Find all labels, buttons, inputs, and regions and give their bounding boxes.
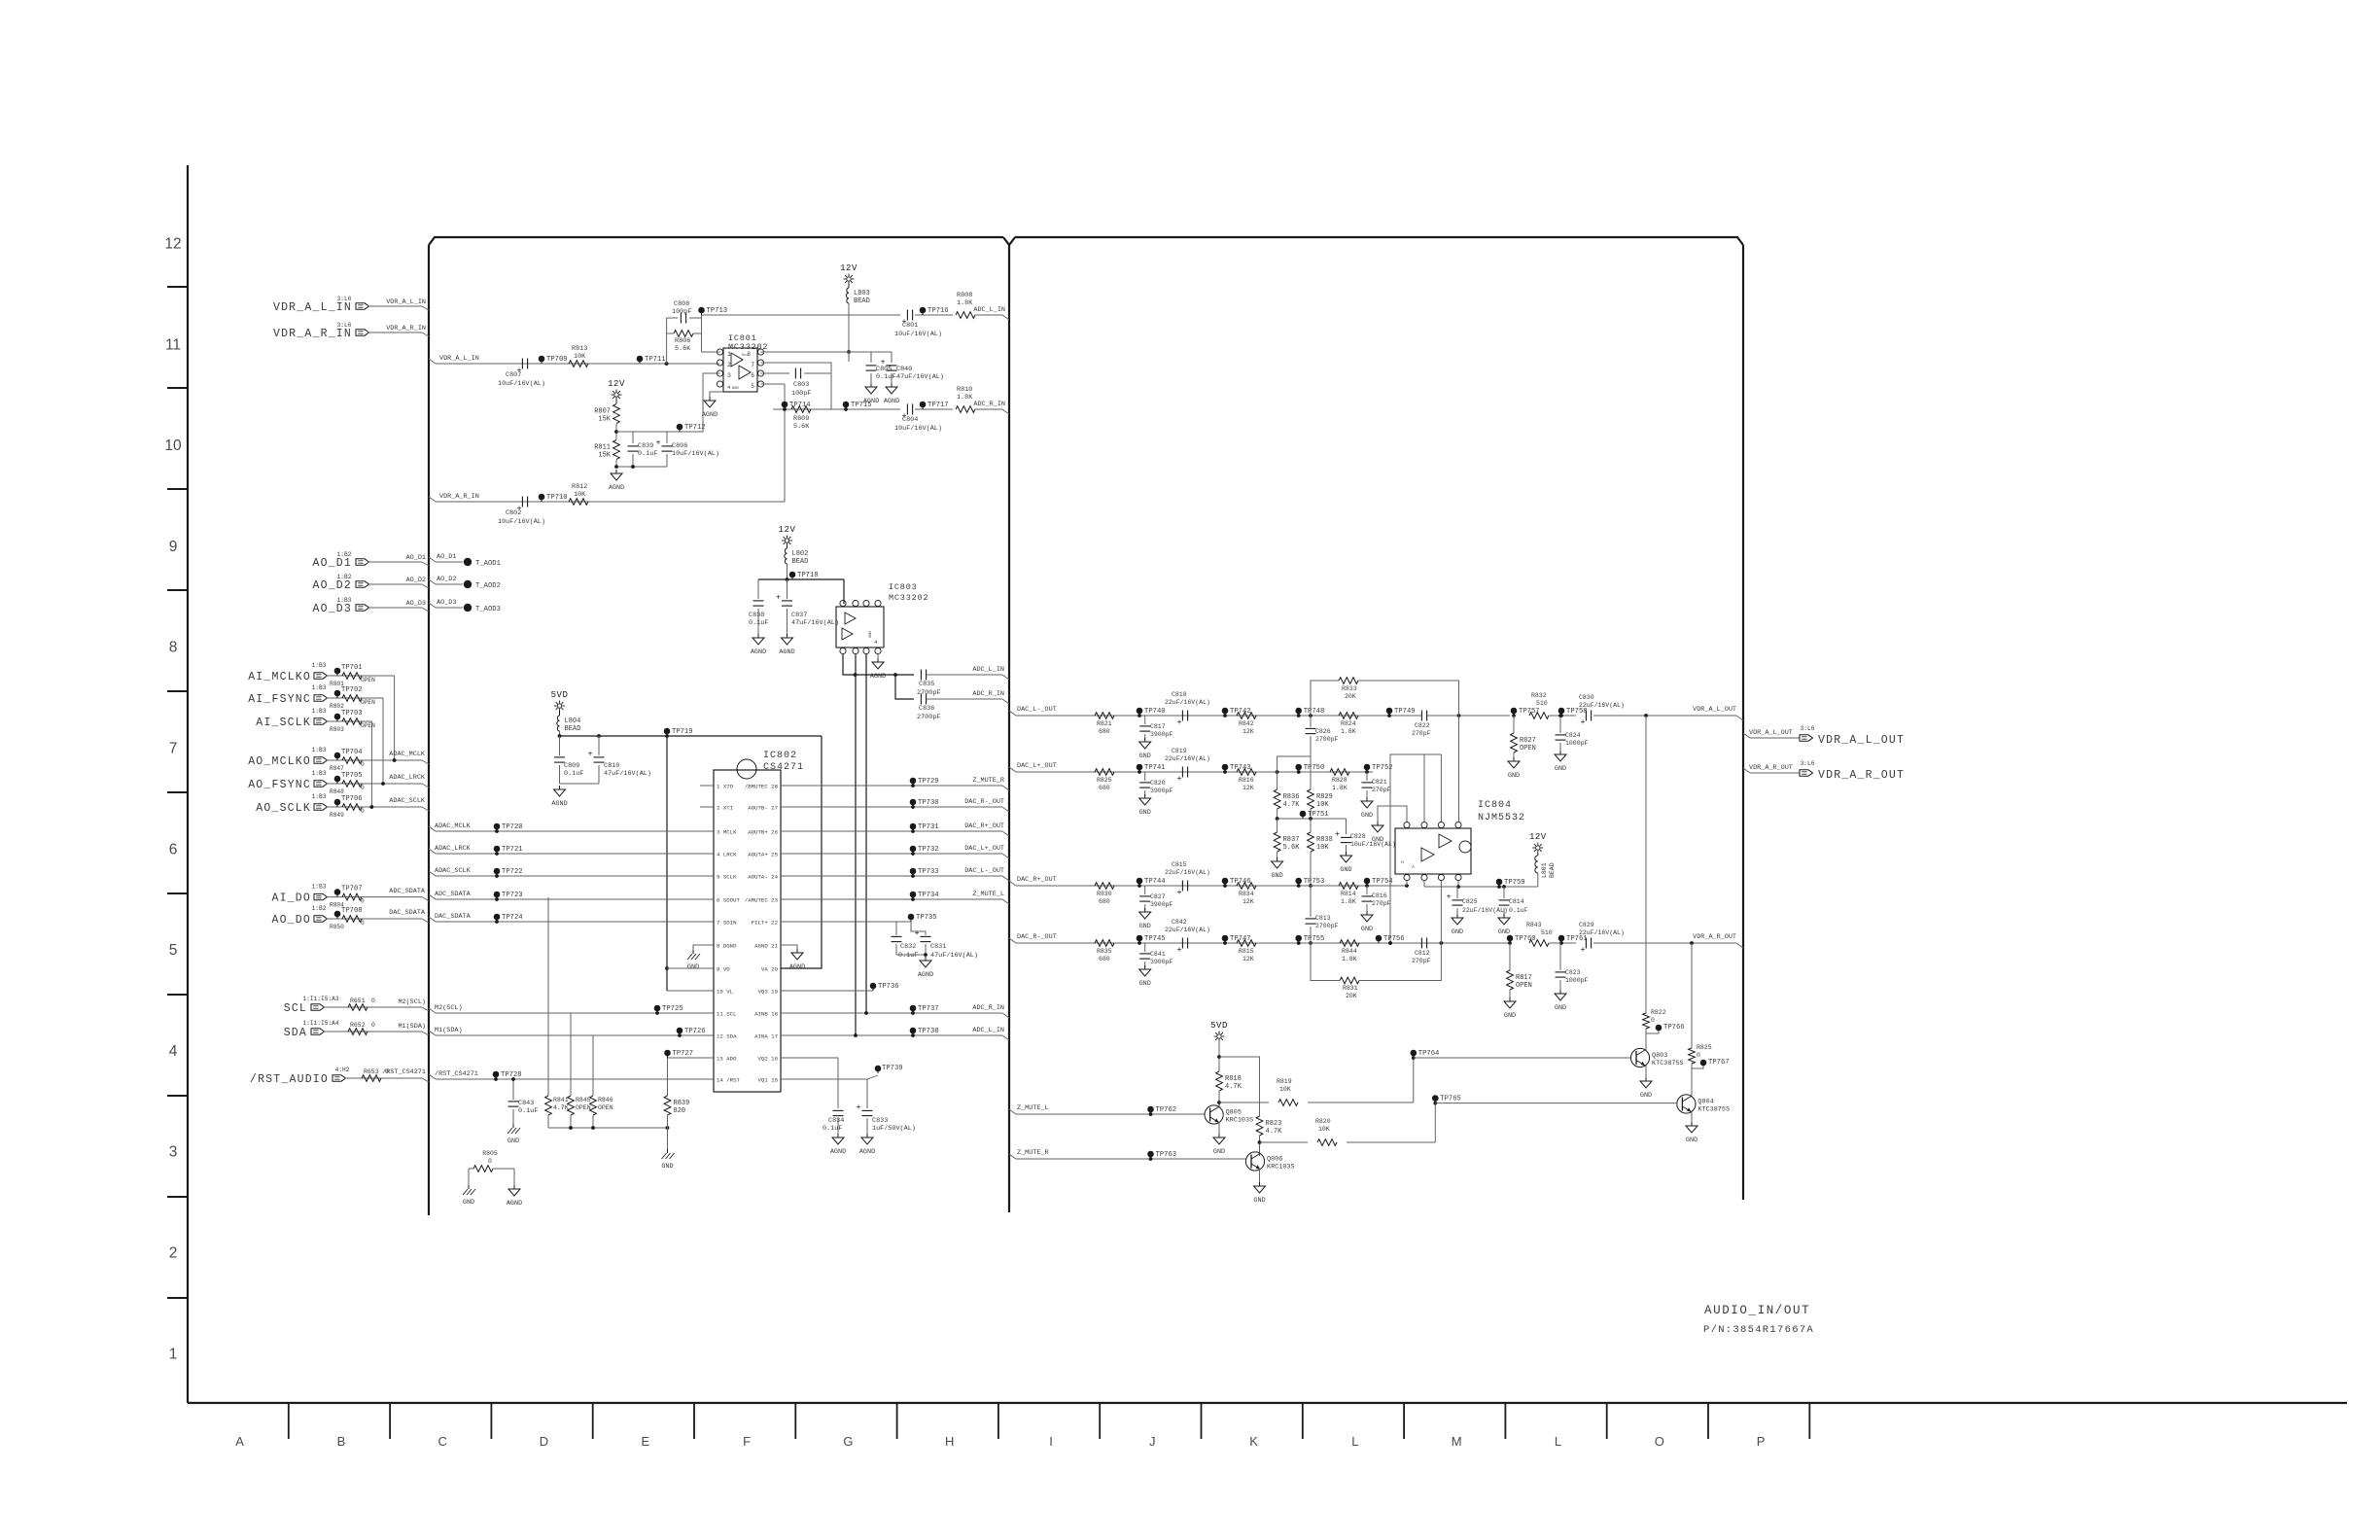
svg-text:12K: 12K xyxy=(1242,898,1254,905)
svg-text:TP733: TP733 xyxy=(918,868,939,876)
column tick 4 xyxy=(693,1403,695,1439)
svg-text:12 SDA: 12 SDA xyxy=(717,1033,737,1040)
svg-text:ADAC_LRCK: ADAC_LRCK xyxy=(435,845,472,853)
svg-text:R829: R829 xyxy=(1316,793,1333,801)
svg-text:TP754: TP754 xyxy=(1372,878,1393,886)
wire Q806 emitter xyxy=(1259,1169,1261,1184)
svg-text:680: 680 xyxy=(1099,728,1110,735)
column tick 7 xyxy=(997,1403,999,1439)
svg-text:47uF/16V(AL): 47uF/16V(AL) xyxy=(930,952,978,960)
resistor R832 xyxy=(1529,713,1549,719)
net M2(SCL) row xyxy=(429,1008,436,1013)
svg-text:5.6K: 5.6K xyxy=(675,345,691,353)
svg-text:R807: R807 xyxy=(594,408,611,416)
resistor R827 xyxy=(1513,716,1515,733)
svg-text:TP725: TP725 xyxy=(662,1005,683,1013)
svg-text:10uF/16V(AL): 10uF/16V(AL) xyxy=(672,450,719,458)
svg-text:+: + xyxy=(1176,774,1181,784)
svg-text:BEAD: BEAD xyxy=(1549,862,1556,878)
svg-text:VA 20: VA 20 xyxy=(761,966,779,973)
svg-text:0.1uF: 0.1uF xyxy=(749,619,768,627)
pin stub DGND xyxy=(693,945,714,951)
ground AGND R805 xyxy=(513,1185,515,1189)
inductor L802 BEAD xyxy=(787,545,788,548)
svg-text:DAC_R+_OUT: DAC_R+_OUT xyxy=(1017,876,1057,884)
svg-text:47uF/16V(AL): 47uF/16V(AL) xyxy=(896,373,944,381)
testpoint TP758 xyxy=(1558,708,1565,715)
capacitor C804 xyxy=(906,404,908,415)
svg-text:GND: GND xyxy=(1361,812,1373,820)
resistor R834 xyxy=(1237,883,1256,890)
testpoint TP741 xyxy=(1137,764,1143,771)
capacitor C828 xyxy=(1346,819,1347,834)
svg-text:IC802: IC802 xyxy=(763,751,797,761)
svg-text:1:B2: 1:B2 xyxy=(337,551,352,558)
capacitor C832 xyxy=(895,922,897,935)
ground GND C820 xyxy=(1144,794,1146,798)
svg-text:+: + xyxy=(1176,717,1181,727)
net M1(SDA) row xyxy=(429,1031,436,1035)
junction AI/AO FSYNC xyxy=(381,782,385,786)
svg-text:R819: R819 xyxy=(1277,1078,1292,1085)
junction ladder R- row xyxy=(1309,941,1312,945)
svg-text:GND: GND xyxy=(687,963,699,971)
svg-text:0: 0 xyxy=(371,997,375,1004)
wire pullup bottom rail xyxy=(547,1115,549,1128)
net ADC_SDATA row xyxy=(429,894,436,899)
feedback resistor R833 loop xyxy=(1311,681,1339,716)
svg-text:1:I1:I5:A4: 1:I1:I5:A4 xyxy=(302,1020,338,1027)
svg-text:TP747: TP747 xyxy=(1230,935,1251,943)
testpoint TP731 xyxy=(910,823,917,830)
svg-text:0: 0 xyxy=(371,1022,375,1029)
svg-text:+: + xyxy=(655,438,660,448)
svg-text:J: J xyxy=(1149,1434,1156,1449)
svg-text:1:B3: 1:B3 xyxy=(312,770,327,777)
svg-text:5VD: 5VD xyxy=(1210,1021,1228,1031)
svg-text:1.8K: 1.8K xyxy=(957,299,973,307)
svg-text:TP766: TP766 xyxy=(1663,1024,1685,1032)
svg-text:TP756: TP756 xyxy=(1383,935,1405,943)
wire /RST_AUDIO xyxy=(345,1077,422,1079)
svg-text:VQ1 15: VQ1 15 xyxy=(758,1077,779,1084)
svg-text:R846: R846 xyxy=(598,1097,613,1103)
svg-text:15K: 15K xyxy=(598,452,611,460)
svg-text:OPEN: OPEN xyxy=(1520,745,1536,752)
svg-text:TP758: TP758 xyxy=(1566,708,1588,716)
wire AO_SCLK xyxy=(327,806,422,808)
wire IC804 bottom pin a to R+ row xyxy=(1406,881,1408,886)
svg-text:TP703: TP703 xyxy=(341,710,363,717)
svg-text:C817: C817 xyxy=(1150,723,1166,730)
svg-text:TP711: TP711 xyxy=(645,356,666,364)
svg-text:680: 680 xyxy=(1099,785,1110,791)
ground GND C821 xyxy=(1366,797,1368,801)
wire AO_FSYNC xyxy=(327,783,422,785)
resistor R804 xyxy=(342,893,362,900)
column tick 0 xyxy=(288,1403,290,1439)
svg-text:O: O xyxy=(1655,1434,1664,1449)
testpoint TP749 xyxy=(1386,708,1393,715)
capacitor C801 xyxy=(906,310,908,321)
net DAC_L-_OUT row xyxy=(1009,711,1016,716)
svg-text:TP712: TP712 xyxy=(684,424,706,432)
svg-text:1.8K: 1.8K xyxy=(957,394,973,402)
svg-text:ADC_R_IN: ADC_R_IN xyxy=(973,401,1005,408)
capacitor C835 xyxy=(920,670,922,681)
svg-text:3:L6: 3:L6 xyxy=(337,322,352,329)
wire R809 row xyxy=(773,408,900,410)
wire AI_FSYNC down to ADAC_LRCK xyxy=(382,698,384,784)
svg-text:CS4271: CS4271 xyxy=(763,762,804,773)
column tick 12 xyxy=(1504,1403,1506,1439)
svg-text:VDR_A_R_IN: VDR_A_R_IN xyxy=(439,493,479,501)
row tick 4 xyxy=(167,690,188,692)
svg-text:GND: GND xyxy=(1555,1004,1566,1012)
svg-text:1.8K: 1.8K xyxy=(1341,728,1356,735)
wire VA feed xyxy=(781,736,822,968)
svg-text:20K: 20K xyxy=(1346,993,1357,999)
svg-text:R833: R833 xyxy=(1342,685,1357,692)
svg-text:VDR_A_R_OUT: VDR_A_R_OUT xyxy=(1693,933,1736,941)
testpoint TP707 xyxy=(334,889,341,895)
testpoint TP702 xyxy=(334,690,341,697)
svg-text:C833: C833 xyxy=(872,1117,888,1125)
capacitor C817 xyxy=(1144,716,1146,724)
svg-text:A: A xyxy=(235,1434,244,1449)
svg-text:ADAC_MCLK: ADAC_MCLK xyxy=(435,822,472,830)
svg-text:AGND: AGND xyxy=(859,1148,875,1156)
svg-text:VQ2 16: VQ2 16 xyxy=(758,1056,779,1063)
resistor R814 xyxy=(1339,883,1358,890)
svg-text:TP761: TP761 xyxy=(1566,935,1588,943)
net AO_D1 inside xyxy=(429,557,436,562)
capacitor C810 xyxy=(598,736,600,755)
svg-text:820: 820 xyxy=(674,1107,686,1115)
svg-text:12V: 12V xyxy=(608,379,625,389)
svg-text:GND: GND xyxy=(732,387,740,391)
svg-text:A: A xyxy=(1412,864,1415,870)
svg-text:510: 510 xyxy=(1536,700,1548,707)
resistor R810 xyxy=(956,406,975,413)
capacitor C806 xyxy=(666,432,668,443)
ground AGND C833 xyxy=(866,1134,868,1137)
svg-text:L: L xyxy=(1555,1434,1561,1449)
svg-text:C835: C835 xyxy=(919,681,934,688)
svg-text:TP717: TP717 xyxy=(927,402,949,409)
wire DAC_R-_OUT row xyxy=(781,806,1002,808)
testpoint TP760 xyxy=(1507,935,1514,942)
svg-text:12V: 12V xyxy=(779,525,796,535)
resistor R801 xyxy=(342,673,362,680)
testpoint TP766 xyxy=(1656,1025,1662,1032)
ground GND Q804 xyxy=(1691,1122,1693,1126)
svg-text:R822: R822 xyxy=(1651,1009,1666,1016)
testpoint TP716 xyxy=(920,307,927,314)
svg-text:AO_MCLKO: AO_MCLKO xyxy=(248,755,311,768)
capacitor C839 xyxy=(632,432,634,443)
resistor R825 xyxy=(1095,769,1114,776)
svg-text:0: 0 xyxy=(361,808,365,815)
testpoint TP701 xyxy=(334,668,341,675)
testpoint TP754 xyxy=(1364,878,1371,885)
wire feedback vertical right xyxy=(701,315,703,352)
wire IC804 pin vert R- xyxy=(1440,880,1442,943)
svg-text:R825: R825 xyxy=(1697,1044,1712,1051)
svg-text:Z_MUTE_R: Z_MUTE_R xyxy=(1017,1149,1049,1157)
op-amp IC803 MC33202 xyxy=(836,607,884,647)
svg-text:270pF: 270pF xyxy=(1372,787,1391,793)
svg-text:R816: R816 xyxy=(1239,777,1254,784)
testpoint TP734 xyxy=(910,892,917,898)
svg-text:12K: 12K xyxy=(1242,728,1254,735)
svg-text:VDR_A_L_OUT: VDR_A_L_OUT xyxy=(1818,734,1905,747)
svg-text:R813: R813 xyxy=(572,345,587,353)
wire AI_FSYNC xyxy=(327,697,383,699)
svg-text:TP715: TP715 xyxy=(851,402,872,409)
svg-text:+: + xyxy=(1446,892,1451,902)
wire VQ1 pin15 xyxy=(781,1079,867,1108)
svg-text:R838: R838 xyxy=(1316,836,1333,844)
svg-text:GND: GND xyxy=(1361,926,1373,933)
net Z_MUTE_R row xyxy=(1009,1154,1016,1159)
svg-text:R803: R803 xyxy=(330,726,344,733)
row tick 9 xyxy=(167,1196,188,1198)
svg-text:Z_MUTE_L: Z_MUTE_L xyxy=(972,891,1004,898)
svg-text:C820: C820 xyxy=(1150,780,1166,787)
svg-text:Q805: Q805 xyxy=(1226,1109,1242,1117)
svg-text:OPEN: OPEN xyxy=(361,699,375,706)
svg-text:DAC_L-_OUT: DAC_L-_OUT xyxy=(964,867,1004,875)
svg-text:GND: GND xyxy=(1139,752,1151,760)
svg-text:M2(SCL): M2(SCL) xyxy=(398,998,426,1006)
net AO_D2 inside xyxy=(429,579,436,584)
svg-text:H: H xyxy=(945,1434,954,1449)
svg-text:C812: C812 xyxy=(1415,950,1430,957)
svg-text:M1(SDA): M1(SDA) xyxy=(435,1027,463,1034)
net ADAC_LRCK row xyxy=(429,849,436,854)
sheet border ruler bottom xyxy=(188,1402,2347,1404)
svg-text:0.1uF: 0.1uF xyxy=(518,1107,538,1115)
svg-text:VDR_A_L_OUT: VDR_A_L_OUT xyxy=(1749,729,1793,737)
row tick 2 xyxy=(167,488,188,490)
svg-text:1:B2: 1:B2 xyxy=(312,905,327,912)
capacitor C833 xyxy=(862,1109,873,1111)
row tick 0 xyxy=(167,286,188,288)
svg-text:R825: R825 xyxy=(1097,777,1112,784)
svg-text:C: C xyxy=(438,1434,447,1449)
testpoint TP714 xyxy=(782,402,788,408)
wire VD/VL feed xyxy=(666,736,668,991)
svg-text:R835: R835 xyxy=(1097,948,1112,955)
svg-text:OPEN: OPEN xyxy=(576,1104,591,1111)
svg-text:C837: C837 xyxy=(791,612,807,619)
svg-text:M2(SCL): M2(SCL) xyxy=(435,1004,463,1012)
svg-text:0: 0 xyxy=(361,785,365,791)
testpoint TP703 xyxy=(334,714,341,720)
junction C812 out xyxy=(1440,941,1444,945)
svg-text:AOUTB- 27: AOUTB- 27 xyxy=(748,805,778,812)
svg-text:+: + xyxy=(1580,945,1585,955)
svg-text:TP709: TP709 xyxy=(546,356,568,364)
svg-text:1: 1 xyxy=(169,1346,178,1362)
svg-text:AO_D3: AO_D3 xyxy=(312,603,352,615)
svg-text:DAC_L+_OUT: DAC_L+_OUT xyxy=(964,845,1004,853)
svg-text:C807: C807 xyxy=(506,371,521,379)
resistor R830 xyxy=(1095,883,1114,890)
svg-text:5.6K: 5.6K xyxy=(1283,844,1301,852)
svg-text:12: 12 xyxy=(164,236,181,253)
svg-text:C839: C839 xyxy=(638,442,653,450)
svg-text:TP726: TP726 xyxy=(684,1028,706,1035)
svg-text:3:L6: 3:L6 xyxy=(337,296,352,302)
testpoint TP710 xyxy=(539,494,545,501)
svg-text:2 XTI: 2 XTI xyxy=(717,805,733,812)
svg-text:R802: R802 xyxy=(330,703,344,710)
svg-text:R814: R814 xyxy=(1341,891,1356,897)
wire AO_MCLKO xyxy=(327,759,422,761)
capacitor C843 xyxy=(512,1079,514,1100)
ground GND C824 xyxy=(1559,751,1561,754)
svg-text:AGND: AGND xyxy=(702,411,717,419)
svg-text:+: + xyxy=(587,750,592,759)
svg-text:ADAC_LRCK: ADAC_LRCK xyxy=(389,774,426,782)
column tick 2 xyxy=(490,1403,492,1439)
port VDR_A_R_OUT xyxy=(1800,770,1813,776)
svg-text:11 SCL: 11 SCL xyxy=(717,1011,737,1018)
testpoint TP744 xyxy=(1137,878,1143,885)
capacitor C826 xyxy=(1306,727,1316,729)
testpoint TP746 xyxy=(1222,878,1229,885)
svg-text:M1(SDA): M1(SDA) xyxy=(398,1023,426,1031)
svg-text:4.7K: 4.7K xyxy=(1283,801,1301,809)
svg-text:C836: C836 xyxy=(919,705,934,713)
svg-text:AGND: AGND xyxy=(870,673,886,681)
net VDR_A_L_OUT external xyxy=(1743,733,1750,738)
transistor Q806 KRC103S xyxy=(1245,1152,1264,1171)
capacitor C838 xyxy=(753,600,764,602)
svg-text:R811: R811 xyxy=(594,444,611,452)
wire VDR_A_R_IN to block edge xyxy=(368,332,422,333)
svg-text:10K: 10K xyxy=(1279,1086,1291,1093)
svg-text:AO_D2: AO_D2 xyxy=(312,579,352,592)
svg-text:NJM5532: NJM5532 xyxy=(1478,813,1525,823)
svg-text:TP751: TP751 xyxy=(1308,811,1329,819)
wire TP765 to Q804 base xyxy=(1435,1102,1676,1104)
svg-text:C834: C834 xyxy=(828,1117,844,1125)
wire AINA pin17 xyxy=(781,1034,1002,1036)
svg-text:TP722: TP722 xyxy=(502,868,523,876)
resistor R802 xyxy=(342,695,362,702)
testpoint TP725 xyxy=(654,1005,661,1012)
resistor R819 xyxy=(1219,1102,1269,1103)
svg-text:3900pF: 3900pF xyxy=(1150,731,1173,738)
svg-text:SCL: SCL xyxy=(284,1002,307,1015)
svg-text:C841: C841 xyxy=(1150,951,1166,958)
svg-text:GND: GND xyxy=(1271,872,1282,880)
ground GND C816 xyxy=(1366,911,1368,915)
junction R825 top xyxy=(1690,941,1694,945)
wire AIN vertical right xyxy=(865,654,867,1013)
wire VQ3 pin19 xyxy=(781,990,873,992)
svg-text:VDR_A_L_IN: VDR_A_L_IN xyxy=(386,298,426,306)
column tick 14 xyxy=(1707,1403,1709,1439)
svg-text:12V: 12V xyxy=(840,263,857,273)
svg-text:10K: 10K xyxy=(1318,1126,1330,1133)
svg-text:TP742: TP742 xyxy=(1230,708,1251,716)
testpoint T_AOD2 xyxy=(464,580,472,588)
svg-text:AGND: AGND xyxy=(609,484,624,492)
capacitor C809 xyxy=(559,736,561,755)
svg-text:KTC3875S: KTC3875S xyxy=(1652,1060,1684,1067)
wire DAC_L-_OUT row xyxy=(781,875,1002,877)
svg-text:C819: C819 xyxy=(1172,748,1187,754)
svg-text:R842: R842 xyxy=(1239,720,1254,727)
ground AGND C838 xyxy=(757,634,759,638)
net ADAC_SCLK row xyxy=(429,871,436,876)
svg-text:/BMUTEC 28: /BMUTEC 28 xyxy=(745,784,779,790)
svg-text:12K: 12K xyxy=(1242,956,1254,962)
capacitor C813 xyxy=(1310,886,1312,917)
svg-text:OPEN: OPEN xyxy=(1516,982,1532,990)
svg-text:1: 1 xyxy=(727,351,731,358)
resistor R848 xyxy=(342,781,362,787)
wire AO_D3 to block edge xyxy=(368,607,422,609)
wire IC804 pin vert L- xyxy=(1458,716,1460,822)
resistor R811 xyxy=(613,440,620,460)
wire VDR_A_R_IN row xyxy=(436,501,785,503)
net VDR_A_R_IN inside xyxy=(429,497,436,502)
svg-text:R847: R847 xyxy=(330,765,344,772)
resistor R806 feedback xyxy=(667,332,675,334)
codec IC802 CS4271 xyxy=(714,770,781,1092)
svg-text:10uF/16V(AL): 10uF/16V(AL) xyxy=(894,425,942,433)
wire Q805 emitter xyxy=(1218,1122,1220,1136)
ground GND Q806 xyxy=(1259,1182,1261,1186)
svg-text:TP745: TP745 xyxy=(1144,935,1166,943)
ground AGND C834 xyxy=(837,1134,839,1137)
transistor Q803 KTC3875S xyxy=(1630,1048,1649,1067)
svg-text:TP749: TP749 xyxy=(1394,708,1416,716)
row tick 6 xyxy=(167,892,188,894)
ground GND C841 xyxy=(1144,965,1146,969)
svg-text:/RST_AUDIO: /RST_AUDIO xyxy=(250,1073,329,1086)
svg-text:GND: GND xyxy=(1253,1197,1265,1205)
svg-text:TP753: TP753 xyxy=(1304,878,1325,886)
power 5VD codec xyxy=(557,704,561,708)
svg-text:22uF/16V(AL): 22uF/16V(AL) xyxy=(1165,699,1210,706)
ground GND R827 xyxy=(1513,757,1515,761)
testpoint TP750 xyxy=(1295,764,1302,771)
svg-text:+: + xyxy=(1176,945,1181,955)
wire AI_DO xyxy=(327,896,422,898)
svg-text:R843: R843 xyxy=(1526,922,1542,928)
svg-text:IC803: IC803 xyxy=(889,582,918,592)
svg-text:VDR_A_R_OUT: VDR_A_R_OUT xyxy=(1749,764,1793,772)
resistor R845 xyxy=(568,1096,575,1115)
svg-text:R820: R820 xyxy=(1315,1118,1331,1125)
wire mid rail TP751 xyxy=(1277,818,1347,820)
svg-text:2: 2 xyxy=(169,1245,178,1262)
svg-text:GND: GND xyxy=(1139,809,1151,817)
svg-text:C813: C813 xyxy=(1315,915,1331,922)
svg-text:C830: C830 xyxy=(1579,694,1594,701)
svg-text:T_AOD1: T_AOD1 xyxy=(475,560,501,568)
testpoint TP756 xyxy=(1376,935,1382,942)
ground GND Q805 xyxy=(1218,1134,1220,1137)
svg-text:TP767: TP767 xyxy=(1708,1059,1730,1067)
svg-text:3:L6: 3:L6 xyxy=(1801,760,1815,767)
